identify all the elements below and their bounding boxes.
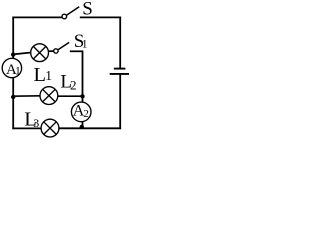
wire branch2 to L2	[13, 95, 40, 97]
lamp L3	[41, 119, 59, 137]
wire branch1 to L1	[13, 53, 31, 55]
battery short plate	[114, 68, 126, 70]
lamp L2	[40, 87, 58, 105]
wire left upper	[12, 17, 14, 59]
svg-text:1: 1	[45, 68, 52, 83]
wire node to A2	[82, 96, 84, 102]
wire L2 to node	[58, 95, 83, 97]
node junction dot 2	[11, 95, 15, 99]
wire top-right segment	[80, 16, 121, 18]
svg-text:L: L	[34, 64, 47, 86]
switch S lever	[67, 7, 80, 15]
wire right lower	[119, 75, 121, 130]
svg-text:1: 1	[82, 39, 88, 51]
svg-text:3: 3	[33, 116, 39, 130]
battery long plate	[110, 73, 129, 75]
node junction dot 1	[11, 52, 15, 56]
node junction dot 3	[80, 94, 84, 98]
wire left middle	[12, 78, 14, 130]
svg-text:2: 2	[70, 78, 77, 93]
ammeter A2	[71, 102, 91, 122]
svg-text:2: 2	[83, 108, 89, 120]
wire bottom-right segment	[59, 127, 121, 129]
wire right upper	[119, 17, 121, 69]
wire L1 to S1	[48, 50, 54, 52]
svg-text:S: S	[82, 0, 93, 19]
ammeter A1	[2, 58, 21, 77]
svg-text:1: 1	[15, 66, 21, 78]
switch S contact circle	[62, 14, 67, 19]
switch S1 lever	[58, 42, 69, 49]
wire branch1 vertical down	[82, 51, 84, 96]
wire bottom-left segment	[12, 127, 41, 129]
switch S1 contact circle	[54, 49, 58, 53]
node junction dot 4	[80, 125, 84, 129]
lamp L1	[31, 44, 49, 62]
wire A2 to bottom	[82, 121, 84, 128]
wire S1 fixed side	[70, 50, 84, 52]
wire top-left segment	[12, 16, 62, 18]
